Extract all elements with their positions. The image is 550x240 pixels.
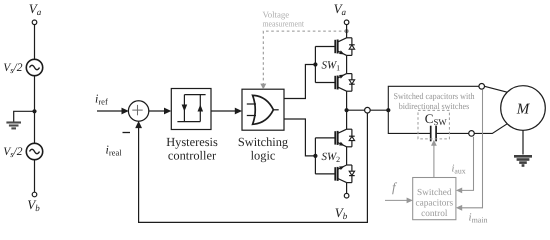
summing junction [128,101,148,121]
source Vs/2 lower [26,143,42,159]
wire motor top lead [485,86,508,92]
wire to ground [14,111,35,121]
svg-text:capacitors: capacitors [415,199,453,209]
motor M [501,86,546,131]
svg-text:Switched capacitors with: Switched capacitors with [394,91,476,101]
svg-text:Vb: Vb [27,197,40,213]
wire SW2 mid [346,147,348,165]
svg-text:control: control [421,209,448,219]
transistor SW2 lower IGBT [315,165,354,183]
svg-text:logic: logic [251,148,276,162]
terminal box bottom right [469,131,475,137]
svg-text:Vb: Vb [335,205,348,221]
wire SW1 bottom to output node [346,91,348,129]
svg-text:controller: controller [168,148,217,162]
node SW1 gate [313,62,317,66]
OR gate [247,95,279,124]
svg-text:imain: imain [469,212,488,225]
minus sign [123,132,131,134]
terminal Va (left) [32,20,37,25]
wire summing to hysteresis [149,110,166,112]
svg-text:SW1: SW1 [322,60,341,73]
node SW2 gate [313,154,317,158]
source Vs/2 upper [26,59,42,75]
wire i_aux [462,137,474,191]
transistor SW1 upper IGBT [315,38,354,56]
svg-text:Vs/2: Vs/2 [3,146,23,159]
wire i_ref input [97,110,123,112]
node tap on Va rail [345,29,349,33]
ground (motor) [514,156,532,165]
box switched capacitors control [413,178,456,220]
svg-text:Switched: Switched [417,188,452,198]
node output junction [345,108,349,112]
wire [34,76,36,144]
terminal Vb (left) [32,192,37,197]
transistor SW2 upper IGBT [315,129,354,147]
wire motor to ground [522,130,524,154]
svg-text:Vs/2: Vs/2 [3,62,23,75]
svg-text:Hysteresis: Hysteresis [166,135,218,149]
terminal Vb (right) [344,193,349,198]
svg-text:Va: Va [334,1,347,17]
wire hysteresis to switching logic [211,110,236,112]
wire control to Csw [433,145,435,178]
wire Va down [346,25,348,38]
svg-text:bidirectional switches: bidirectional switches [399,101,470,111]
capacitor Csw plates [430,126,432,142]
svg-text:Va: Va [29,1,42,17]
wire logic output to SW1 gate [284,65,315,99]
wire [34,25,36,60]
switching logic box [242,89,284,130]
box switched capacitors [388,86,479,133]
svg-text:SW2: SW2 [322,151,341,164]
terminal box top right [479,84,485,90]
wire [34,160,36,193]
wire logic output to SW2 gate [284,119,315,156]
wire feedback i_real [139,113,368,222]
svg-text:iaux: iaux [452,163,466,175]
svg-text:ireal: ireal [106,143,123,158]
node box input [386,108,390,112]
wire SW1 mid [346,55,348,73]
svg-text:iref: iref [95,92,108,107]
svg-text:CSW: CSW [425,111,448,127]
terminal output inline [365,107,371,113]
wire motor bottom lead [474,124,507,134]
wire i_main [462,90,483,208]
wire dashed measurement [263,31,346,84]
wire SW2 bottom [346,183,348,194]
svg-text:Switching: Switching [238,135,288,149]
wire output to box [347,109,365,111]
terminal Va (right) [344,20,349,25]
svg-text:measurement: measurement [263,18,305,28]
hysteresis glyph [177,95,205,122]
node ground tap [32,109,36,113]
ground (left) [6,123,21,129]
transistor SW1 lower IGBT [315,74,354,92]
svg-text:f: f [392,180,398,195]
wire f input [385,199,407,201]
svg-text:M: M [516,102,531,118]
dashed box around Csw [418,110,449,138]
hysteresis controller box [171,89,211,130]
